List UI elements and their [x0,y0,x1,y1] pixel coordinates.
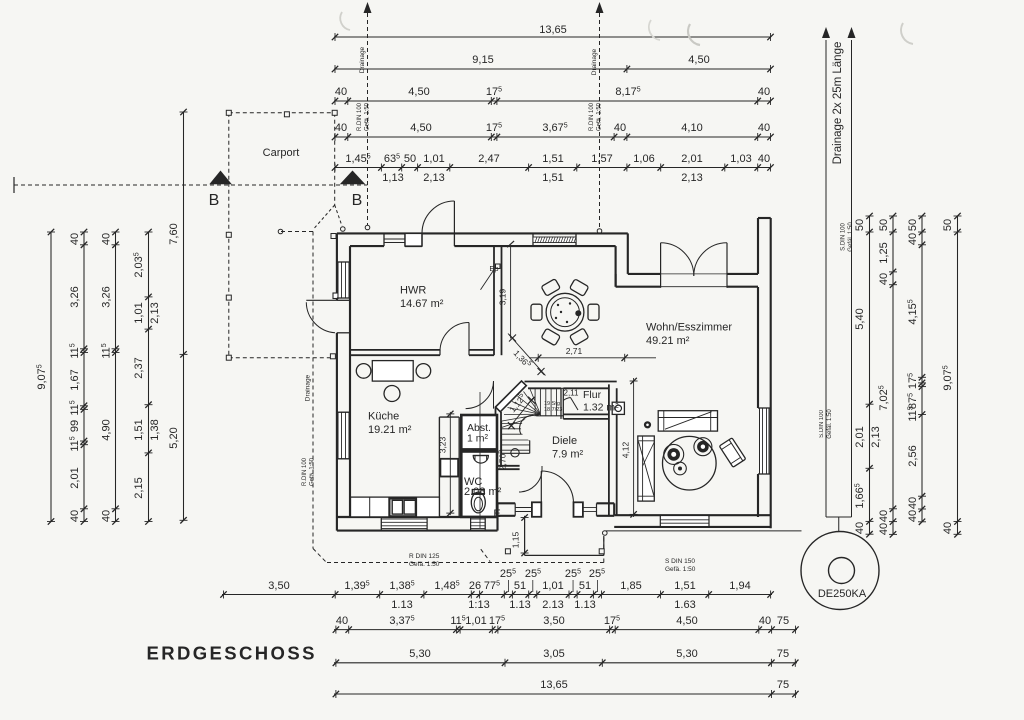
french door living room (double arc) [661,243,727,288]
svg-text:2.13: 2.13 [542,599,563,611]
svg-text:4,10: 4,10 [681,122,702,134]
section line B-B [14,171,367,210]
svg-text:1,51: 1,51 [542,153,563,165]
wall HWR/kitchen [350,350,494,355]
dimension 1,12.5 stair diagonal [507,392,535,430]
svg-text:50: 50 [854,219,866,231]
svg-text:Flur: Flur [583,389,602,401]
svg-text:1.13: 1.13 [574,599,595,611]
sewer line S DIN 150 to circle [606,531,802,573]
svg-text:3,05: 3,05 [543,648,564,660]
svg-text:4,12: 4,12 [621,441,631,458]
wall diagonal stair corner [496,381,527,412]
svg-text:2,56: 2,56 [907,445,919,466]
wall exterior right with pillar [758,218,771,528]
svg-text:ERDGESCHOSS: ERDGESCHOSS [147,643,317,664]
svg-text:1.13: 1.13 [509,599,530,611]
svg-text:99: 99 [69,420,81,432]
svg-text:40: 40 [759,615,771,627]
svg-text:19.21 m²: 19.21 m² [368,424,412,436]
right dimension column 50/5,40/2,01/1,66.5/40 [854,213,882,538]
stair labels [497,401,562,470]
svg-text:4,50: 4,50 [688,54,709,66]
svg-text:75: 75 [777,679,789,691]
entry door with arc [541,471,573,503]
svg-text:Gefä. 1:50: Gefä. 1:50 [665,566,696,573]
left dimension column 9,07.5 [36,229,55,525]
svg-text:13,65: 13,65 [539,24,567,36]
svg-text:51: 51 [579,580,591,592]
svg-text:2,01: 2,01 [69,467,81,488]
label WC [464,476,502,498]
svg-text:50: 50 [907,219,919,231]
svg-text:13,65: 13,65 [540,679,568,691]
svg-text:1,51: 1,51 [674,580,695,592]
svg-text:40: 40 [101,510,113,522]
furniture kitchen counter and sink [351,497,440,517]
svg-text:75: 75 [777,615,789,627]
wall exterior bottom entry section [498,503,615,516]
svg-text:1.13: 1.13 [391,599,412,611]
carport dashed outline [229,113,335,358]
svg-text:2,13: 2,13 [681,172,702,184]
svg-text:1,51: 1,51 [133,419,145,440]
door symbol Flur (box with circle) [563,398,624,415]
left dimension column 2,03.5/1,01/2,37/1,51/2,15 [133,229,161,525]
door jamb block entry right [574,502,583,517]
svg-text:Wohn/Esszimmer: Wohn/Esszimmer [646,322,732,334]
label Carport [263,147,300,159]
svg-text:R DIN 125: R DIN 125 [409,553,440,560]
furniture sofa living [638,436,655,501]
dimension 2,71 dining [529,346,656,362]
svg-text:1,25: 1,25 [878,242,890,263]
svg-text:1,06: 1,06 [633,153,654,165]
label Abst [467,422,491,445]
svg-text:4,50: 4,50 [408,86,429,98]
dimension 3,23 kitchen [438,411,455,517]
label Diele [552,435,584,461]
svg-text:40: 40 [614,122,626,134]
window dining top wall hatched [533,233,576,246]
svg-text:2,11: 2,11 [564,389,580,398]
svg-text:2,47: 2,47 [478,153,499,165]
svg-text:51: 51 [514,580,526,592]
svg-text:2.08 m²: 2.08 m² [464,486,502,498]
svg-text:49.21 m²: 49.21 m² [646,335,690,347]
door jamb block entry left [532,502,541,517]
svg-text:E: E [493,508,500,520]
wall Flur top [525,382,617,389]
boxes Abst and WC [461,415,497,517]
furniture dining table with chairs [531,279,599,346]
wall exterior bottom living section [614,515,771,527]
svg-text:2,37: 2,37 [133,357,145,378]
svg-text:Gefä. 1:50: Gefä. 1:50 [310,457,316,486]
svg-text:5,30: 5,30 [676,648,697,660]
svg-text:3,23: 3,23 [438,436,448,453]
drainage band right Drainage 2x 25m Laenge [819,27,856,531]
bottom dimension row 5,30/3,05/5,30/75 [333,648,799,667]
svg-text:40: 40 [907,233,919,245]
svg-text:3,50: 3,50 [268,580,289,592]
svg-text:1,51: 1,51 [542,172,563,184]
svg-text:1 m²: 1 m² [467,433,489,445]
dimension 4,12 living [621,378,638,518]
carport posts [226,110,337,360]
wall exterior bottom kitchen section [337,503,498,530]
wall stair left [496,407,502,468]
window HWR left wall [337,262,350,298]
svg-text:4,90: 4,90 [101,419,113,440]
svg-text:Küche: Küche [368,411,399,423]
svg-text:40: 40 [878,510,890,522]
fixture WC toilet [471,490,485,513]
dimension 1,15 porch [511,514,529,556]
furniture lamp dot living [644,421,651,428]
svg-text:1,57: 1,57 [591,153,612,165]
dimension row detail 1,45.5 .. 40 [332,153,774,184]
wall HWR right / shaft left [494,246,502,355]
svg-text:5,40: 5,40 [854,308,866,329]
svg-text:1.32 m²: 1.32 m² [583,402,619,414]
svg-text:2,13: 2,13 [423,172,444,184]
svg-text:18,7/23: 18,7/23 [544,407,562,413]
svg-text:3,26: 3,26 [101,286,113,307]
door Diele (arc) [519,466,542,492]
furniture coffee table living [663,436,717,490]
dimension row 40/4,50/17.5/8,17.5/40 [332,86,774,105]
left dimension column 40/3,26/11.5/1,67/11.5/99/11.5/2,01/40 [69,229,88,525]
svg-text:HWR: HWR [400,285,426,297]
svg-text:B: B [352,192,363,209]
stairs winder [502,388,564,457]
wall step top right [616,233,628,286]
window living room right wall [758,408,771,474]
drainage dashed line kitchen side [278,205,345,563]
label Flur [583,389,619,414]
wall Flur bottom [563,414,609,419]
svg-text:40: 40 [758,122,770,134]
svg-text:Drainage: Drainage [305,374,312,401]
label Wohn/Esszimmer [646,322,732,348]
drain note R DIN 125 [409,553,440,568]
svg-text:5,20: 5,20 [168,427,180,448]
svg-text:50: 50 [878,219,890,231]
label HWR [400,285,444,311]
svg-text:Drainage: Drainage [591,48,598,75]
bottom dimension row 13,65/75 [333,679,799,698]
wall living room top [616,274,758,287]
left dimension column 40/3,26/11.5/4,90/40 [101,229,120,525]
svg-text:40: 40 [335,86,347,98]
svg-text:S.DIN 100: S.DIN 100 [841,223,847,251]
fixture WC basin [473,456,488,464]
wall exterior top [337,233,628,246]
window WC bottom wall [471,517,486,531]
dimension 2,11 flur [564,389,580,398]
scan artifact arcs [340,12,913,45]
svg-text:1,38: 1,38 [149,419,161,440]
svg-text:R.DIN 100: R.DIN 100 [357,102,363,131]
porch entry slab [525,516,608,556]
wall Diele/living room [609,384,617,515]
svg-text:Gefäl. 1:50: Gefäl. 1:50 [848,222,854,252]
bottom dimension row 40/3,37.5/11.5/1,01/17.5/3,50/17.5/4,50/40/75 [333,615,799,634]
window HWR top wall [384,233,405,246]
drainage dashed bottom run [327,536,604,563]
furniture sideboard living [658,411,717,431]
svg-text:1.63: 1.63 [674,599,695,611]
right dimension column 50/1,25/40/7,02.5/40/40 [878,213,897,538]
svg-text:2,71: 2,71 [566,346,583,356]
furniture armchair living [719,438,746,467]
svg-text:14.67 m²: 14.67 m² [400,298,444,310]
svg-text:40: 40 [758,86,770,98]
dimension row total 13,65 [332,24,774,41]
kitchen strip wall [439,417,459,517]
dimension 1,36.5 diagonal [508,334,546,376]
svg-text:1,13: 1,13 [382,172,403,184]
svg-text:1,01: 1,01 [133,302,145,323]
svg-text:B: B [209,192,220,209]
left dimension column 7,60/5,20 [168,109,188,524]
svg-text:40: 40 [878,523,890,535]
svg-text:Gefä. 1:50: Gefä. 1:50 [597,102,603,131]
pillar block top wall [405,233,422,246]
svg-text:1,85: 1,85 [620,580,641,592]
svg-text:40: 40 [69,233,81,245]
svg-text:40: 40 [101,233,113,245]
svg-text:26: 26 [469,580,481,592]
window terrace living bottom [660,515,709,527]
svg-text:40: 40 [907,510,919,522]
svg-text:40: 40 [69,510,81,522]
drainage dashed line middle with arrow [589,2,604,233]
svg-text:2,01: 2,01 [681,153,702,165]
svg-text:1,03: 1,03 [730,153,751,165]
label Kueche [368,411,412,437]
svg-text:4,50: 4,50 [676,615,697,627]
svg-text:2,13: 2,13 [870,426,882,447]
door kitchen (arc) [466,381,494,409]
dimension row 40/4,50/17.5/3,67.5/40/4,10/40 [332,122,774,141]
wall stairhall/WC bottom [497,466,520,469]
svg-text:1:13: 1:13 [468,599,489,611]
svg-text:3,26: 3,26 [69,286,81,307]
svg-text:S DIN 150: S DIN 150 [665,558,695,565]
svg-text:40: 40 [878,273,890,285]
svg-text:40: 40 [336,615,348,627]
svg-text:3,19: 3,19 [498,288,508,305]
svg-text:50: 50 [404,153,416,165]
svg-text:1,01: 1,01 [423,153,444,165]
label Ep + duct diagonal [481,264,501,290]
svg-text:Gefäl. 1:50: Gefäl. 1:50 [827,409,833,439]
svg-text:50: 50 [942,219,954,231]
title ERDGESCHOSS [147,643,317,664]
dimension line 3,19 duct [510,247,512,339]
svg-text:75: 75 [777,648,789,660]
svg-text:40: 40 [335,122,347,134]
svg-text:40: 40 [942,522,954,534]
svg-text:R.DIN 100: R.DIN 100 [302,457,308,486]
svg-text:1,15: 1,15 [511,531,521,548]
door HWR to carport (leaf+arc) [306,293,350,333]
svg-text:9,15: 9,15 [472,54,493,66]
drainage dashed line left with arrow [357,2,372,230]
wall exterior left [337,233,350,530]
svg-text:DE250KA: DE250KA [818,588,867,600]
svg-text:2,13: 2,13 [149,302,161,323]
svg-text:1,01: 1,01 [465,615,486,627]
svg-text:40: 40 [907,497,919,509]
door HWR exterior (opening+arc) [422,201,454,246]
svg-text:2,01: 2,01 [854,426,866,447]
svg-text:Drainage: Drainage [359,46,366,73]
sewer pipe line through WC [479,392,481,528]
svg-text:40: 40 [854,522,866,534]
svg-text:1,01: 1,01 [542,580,563,592]
svg-text:5,30: 5,30 [409,648,430,660]
svg-text:40: 40 [758,153,770,165]
furniture kitchen table and chairs [356,361,430,402]
svg-text:1,67: 1,67 [69,369,81,390]
window kitchen left wall [337,412,350,459]
svg-text:2,15: 2,15 [133,477,145,498]
svg-text:R.DIN 100: R.DIN 100 [589,102,595,131]
svg-text:1,94: 1,94 [729,580,750,592]
label E [493,508,500,520]
window entry left [515,503,532,516]
wall Flur left [561,388,563,419]
dimension row 9,15 / 4,50 [332,54,774,73]
window entry right [583,503,597,516]
svg-text:Gefä. 1:50: Gefä. 1:50 [365,102,371,131]
svg-text:S.DIN 100: S.DIN 100 [819,410,825,438]
sewer circle DE250KA [801,532,879,610]
bottom dimension row detail 3,50 .. 1,94 [220,568,774,611]
svg-text:7.9 m²: 7.9 m² [552,449,584,461]
svg-text:7,60: 7,60 [168,223,180,244]
right dimension column 50/9,07.5/40 [942,213,962,538]
svg-text:3,50: 3,50 [543,615,564,627]
window kitchen bottom wall [381,517,427,531]
svg-text:Diele: Diele [552,435,577,447]
dimension 3,19 shaft [498,241,515,305]
door HWR interior (arc into HWR) [440,323,469,352]
svg-text:Drainage 2x 25m Länge: Drainage 2x 25m Länge [832,42,844,165]
svg-text:4,50: 4,50 [410,122,431,134]
right dimension column 50/40/4,15.5/17.5/87.5/11.5/2,56/40/40 [907,213,926,525]
svg-text:Carport: Carport [263,147,300,159]
